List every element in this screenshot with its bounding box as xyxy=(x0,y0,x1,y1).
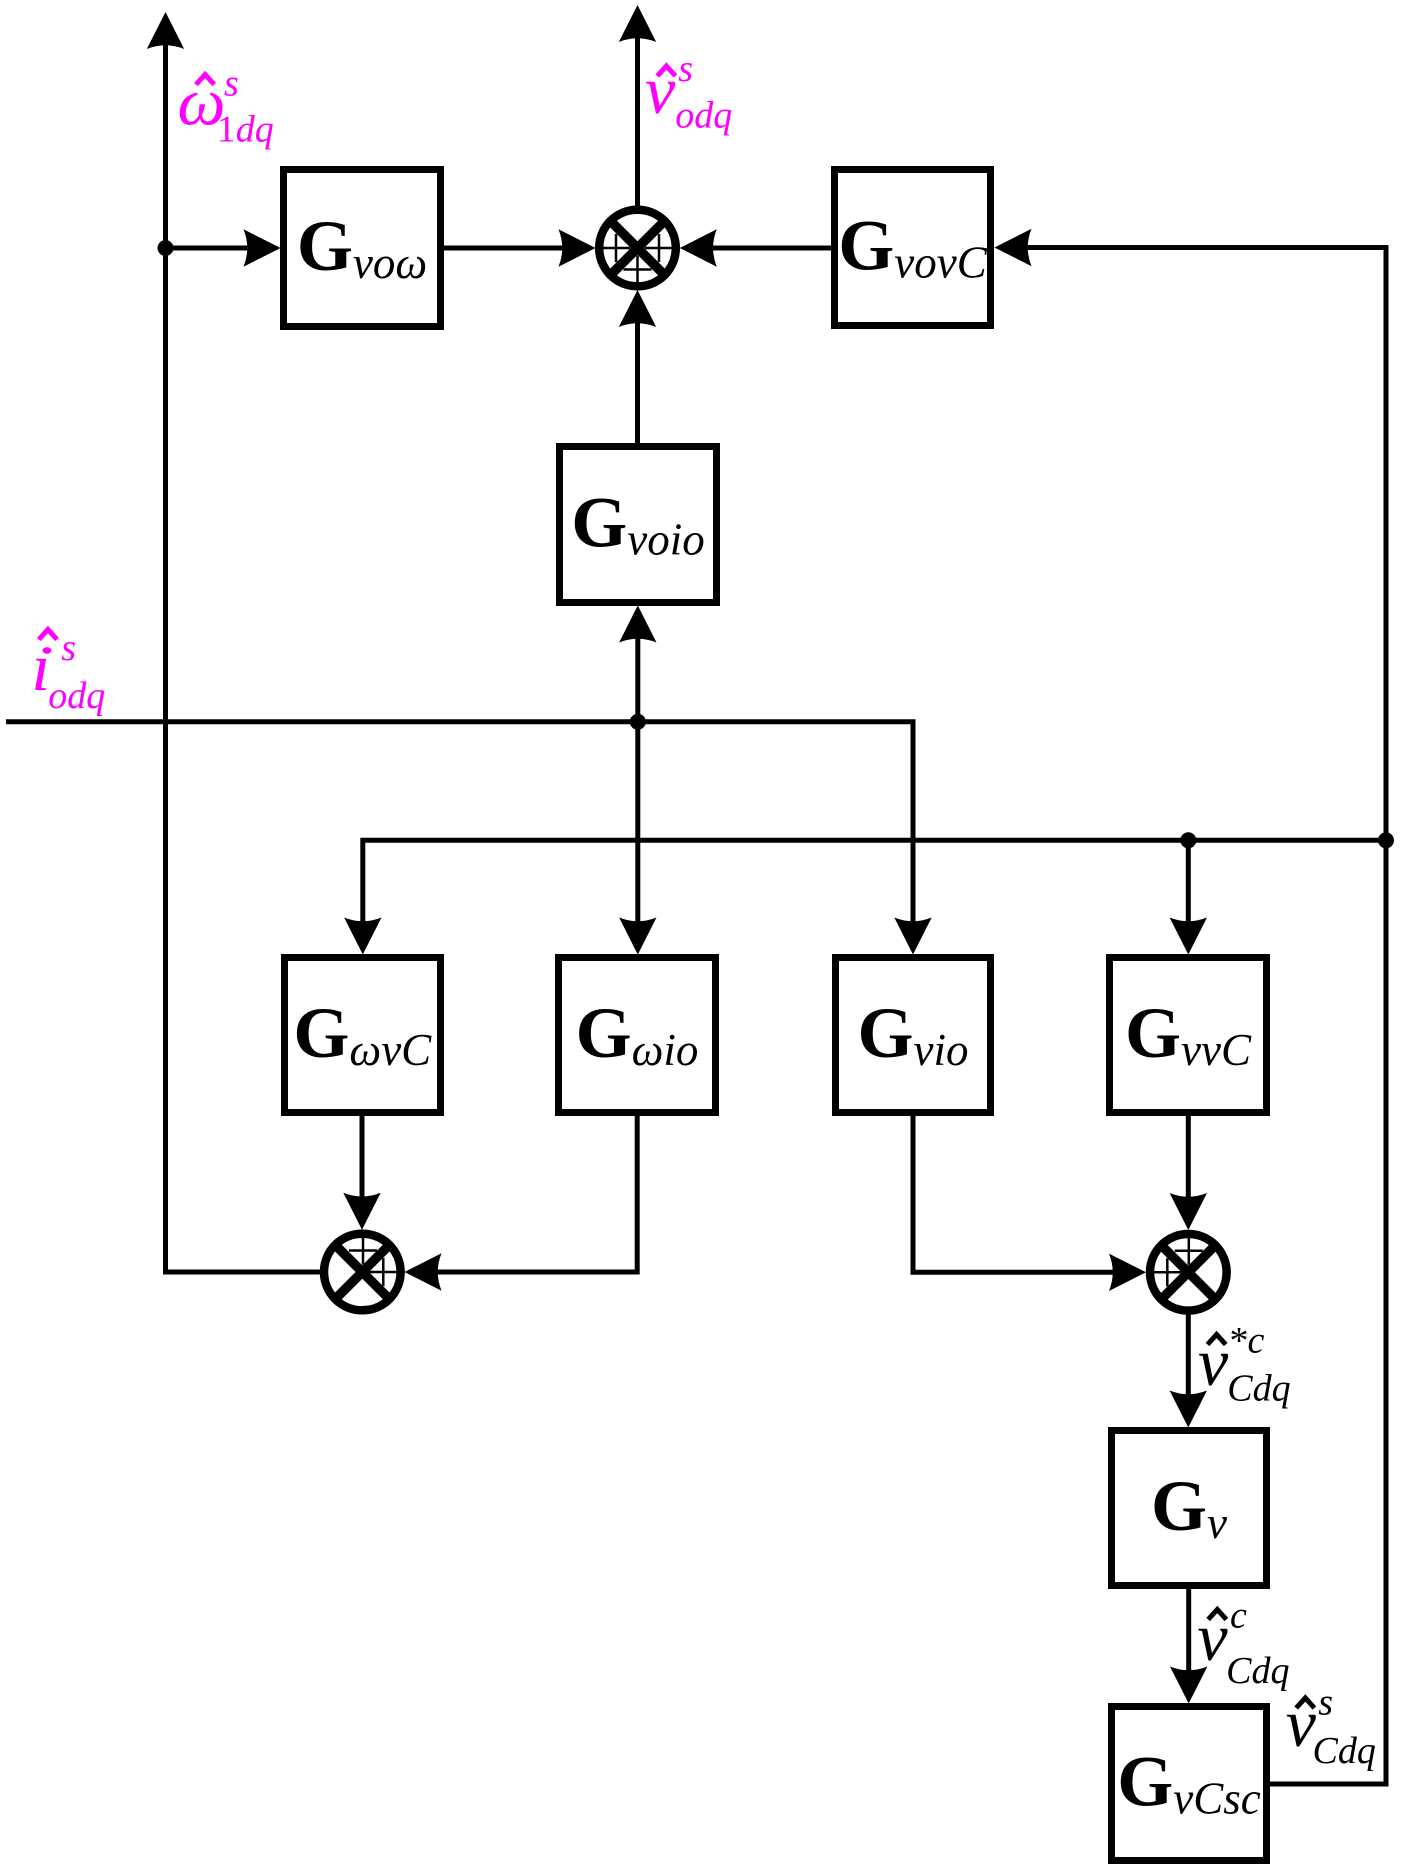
svg-text:s: s xyxy=(678,48,693,90)
label i-hat s odq (magenta) xyxy=(32,627,106,717)
wire Gvoω output into S1 left xyxy=(441,229,596,266)
wire feedback vCdq-s: from GvCsc output right, up, left into GvovC xyxy=(995,229,1387,1784)
wire S1 output up to vodq arrow xyxy=(619,5,656,209)
svg-text:s: s xyxy=(224,63,239,105)
svg-text:c: c xyxy=(1230,1595,1247,1637)
label v-hat c Cdq (black) xyxy=(1197,1595,1289,1692)
wire drop from vC line into GvvC xyxy=(1170,840,1207,954)
wire Gv output down into GvCsc xyxy=(1170,1587,1207,1704)
block GvvC xyxy=(1110,958,1267,1113)
summing junction S1 xyxy=(599,210,676,287)
summing junction S2 xyxy=(324,1234,401,1311)
wire Gomega-io output: down from Gωio then left into S2 xyxy=(405,1113,638,1291)
svg-text:1dq: 1dq xyxy=(217,108,274,150)
wire vC distribution: corner at left dropping into GωvC, horizontal to feedback line xyxy=(344,840,1386,954)
node dot vC line at feedback line xyxy=(1378,832,1394,848)
wire tap from omega line into Gvoω xyxy=(166,229,281,266)
block GvCsc xyxy=(1112,1707,1267,1861)
wire iodq input: horizontal line, corner down into Gvio xyxy=(6,722,932,955)
svg-text:v: v xyxy=(645,52,676,128)
wire Gvoio output up into S1 bottom xyxy=(619,290,656,445)
svg-text:odq: odq xyxy=(48,675,105,717)
svg-text:c: c xyxy=(1248,1319,1265,1361)
svg-text:odq: odq xyxy=(675,95,732,137)
node dot vC line at GvvC drop xyxy=(1180,832,1196,848)
block GωvC xyxy=(285,958,441,1113)
summing junction S3 xyxy=(1150,1234,1227,1311)
wire GvvC output down into S3 top xyxy=(1170,1113,1207,1230)
node dot on omega line xyxy=(158,240,174,256)
node dot iodq line xyxy=(630,714,646,730)
svg-text:s: s xyxy=(1318,1682,1333,1724)
wire from iodq node up into Gvoio bottom xyxy=(619,606,656,724)
wire S3 output down into Gv xyxy=(1170,1314,1207,1428)
wire GvovC output into S1 right xyxy=(680,229,833,266)
svg-text:s: s xyxy=(61,627,76,669)
svg-text:Cdq: Cdq xyxy=(1226,1650,1289,1692)
label v-hat s odq (magenta) xyxy=(645,48,732,137)
block GvovC xyxy=(835,170,991,326)
block Gωio xyxy=(559,958,716,1113)
wire GωvC output down into S2 top xyxy=(343,1113,380,1230)
block Gvoω xyxy=(284,170,441,327)
svg-text:*: * xyxy=(1230,1320,1249,1362)
svg-text:Cdq: Cdq xyxy=(1313,1730,1376,1772)
block Gvio xyxy=(836,958,991,1113)
wire Gvio output: down then right into S3 left xyxy=(913,1113,1146,1291)
wire center drop from iodq node into Gωio xyxy=(619,722,656,955)
svg-text:v: v xyxy=(1197,1599,1228,1675)
label v-hat s Cdq (black) xyxy=(1286,1682,1376,1773)
svg-text:Cdq: Cdq xyxy=(1227,1367,1290,1409)
label v-hat *c Cdq (black) xyxy=(1198,1319,1291,1409)
block Gv xyxy=(1112,1431,1267,1586)
label omega-hat s 1dq (magenta) xyxy=(178,63,274,151)
block Gvoio xyxy=(560,447,717,603)
wire omega output: from summing junction S2 left, up to top arrow xyxy=(147,12,320,1272)
